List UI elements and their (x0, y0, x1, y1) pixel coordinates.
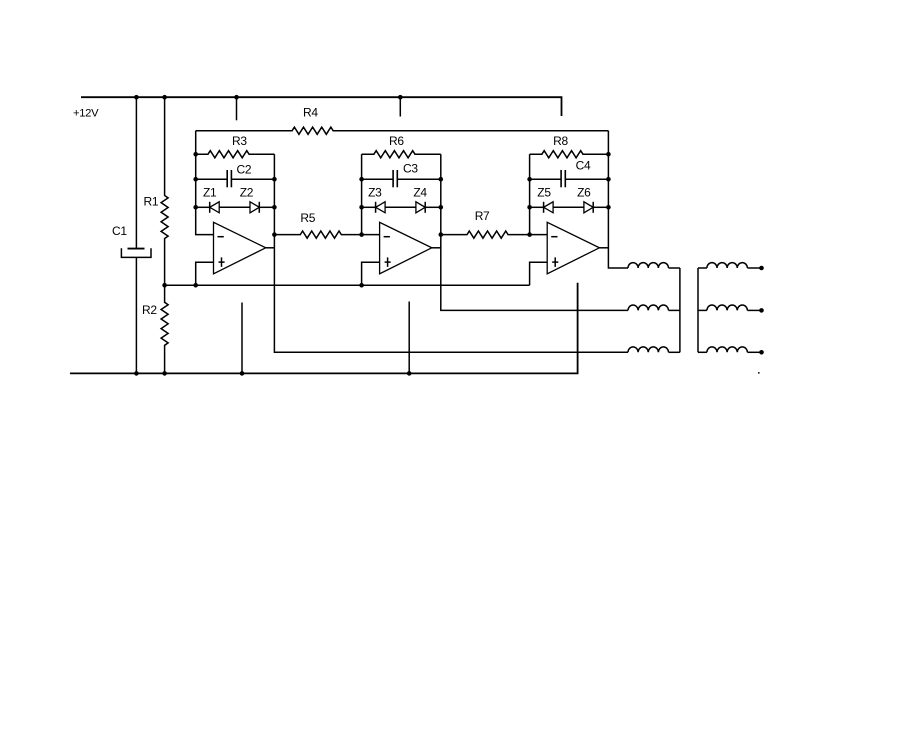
svg-text:R1: R1 (144, 194, 159, 208)
svg-text:Z4: Z4 (413, 185, 427, 199)
svg-text:R7: R7 (475, 209, 490, 223)
svg-text:C3: C3 (403, 162, 418, 176)
svg-text:C4: C4 (576, 158, 591, 172)
svg-text:Z2: Z2 (240, 185, 254, 199)
svg-text:R4: R4 (303, 105, 318, 119)
svg-text:+12V: +12V (73, 108, 99, 120)
svg-text:Z5: Z5 (537, 185, 551, 199)
svg-text:C2: C2 (237, 163, 252, 177)
svg-text:R3: R3 (232, 134, 247, 148)
svg-text:Z1: Z1 (203, 185, 217, 199)
svg-text:Z6: Z6 (577, 185, 591, 199)
svg-text:Z3: Z3 (368, 185, 382, 199)
svg-text:C1: C1 (112, 224, 127, 238)
svg-text:R6: R6 (389, 134, 404, 148)
svg-text:R2: R2 (142, 303, 157, 317)
svg-text:R8: R8 (553, 134, 568, 148)
svg-text:R5: R5 (300, 211, 315, 225)
